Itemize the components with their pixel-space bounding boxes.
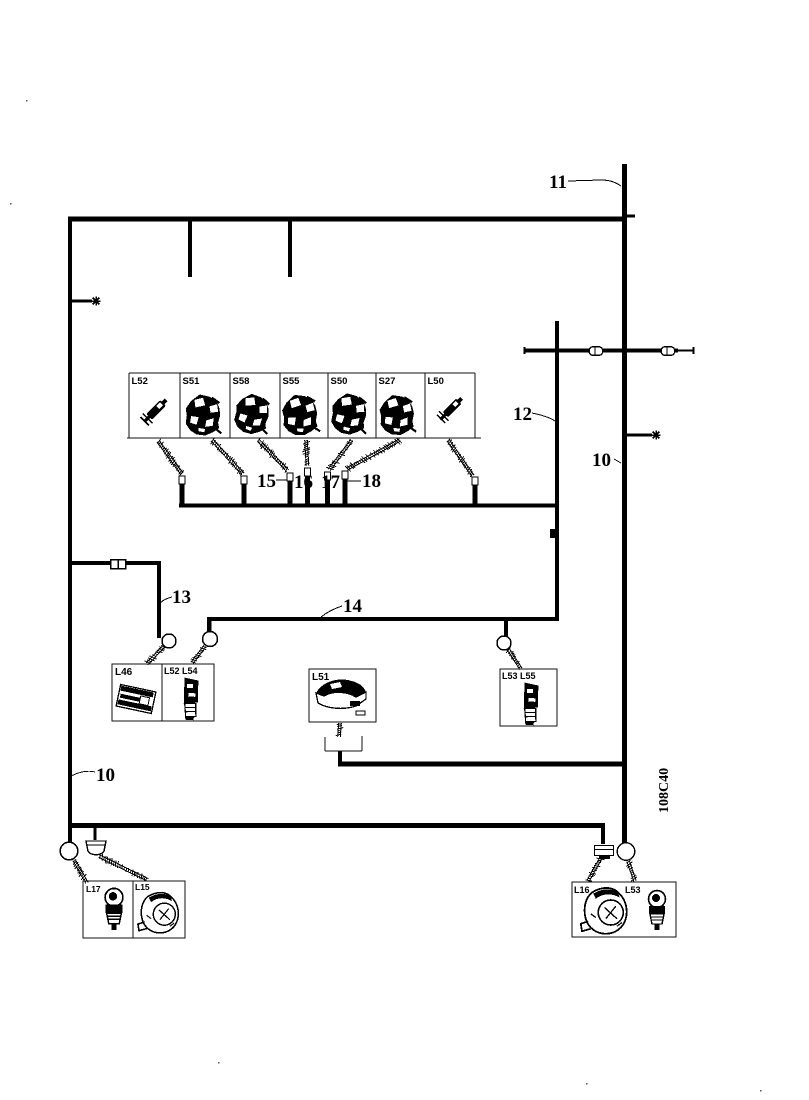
svg-text:L53: L53 — [625, 885, 641, 895]
svg-text:L46: L46 — [115, 667, 133, 678]
svg-text:15: 15 — [257, 471, 276, 492]
svg-text:L15: L15 — [135, 882, 150, 892]
svg-text:L52 L54: L52 L54 — [164, 666, 198, 676]
svg-text:12: 12 — [513, 404, 532, 425]
svg-text:17: 17 — [321, 472, 341, 493]
svg-text:L53 L55: L53 L55 — [502, 671, 536, 681]
svg-text:11: 11 — [549, 172, 567, 193]
svg-text:S55: S55 — [283, 376, 301, 387]
svg-text:108C40: 108C40 — [657, 768, 672, 813]
svg-text:L50: L50 — [428, 376, 444, 387]
svg-text:L17: L17 — [86, 884, 101, 894]
svg-text:10: 10 — [96, 765, 115, 786]
svg-text:S58: S58 — [233, 376, 250, 387]
svg-text:14: 14 — [343, 596, 363, 617]
svg-text:L52: L52 — [132, 376, 148, 387]
svg-text:L51: L51 — [312, 672, 330, 683]
svg-text:S51: S51 — [183, 376, 201, 387]
svg-text:S50: S50 — [331, 376, 348, 387]
svg-text:10: 10 — [592, 450, 611, 471]
svg-text:13: 13 — [172, 587, 191, 608]
svg-text:L16: L16 — [574, 885, 590, 895]
svg-text:S27: S27 — [379, 376, 396, 387]
svg-text:16: 16 — [294, 472, 313, 493]
svg-text:18: 18 — [362, 471, 381, 492]
